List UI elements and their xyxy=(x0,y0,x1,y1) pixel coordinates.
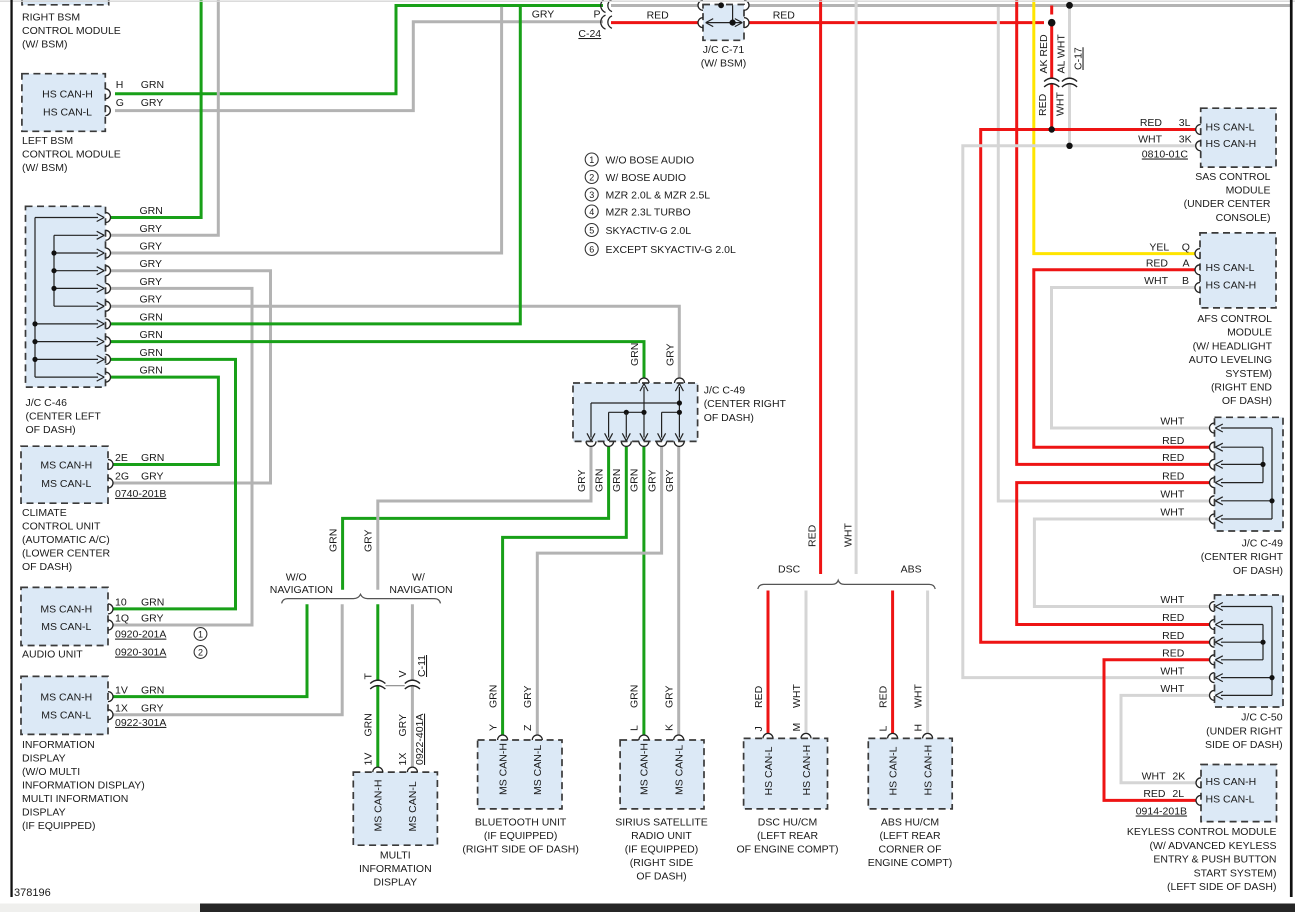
svg-text:J/C C-50: J/C C-50 xyxy=(1241,712,1283,724)
svg-text:RED: RED xyxy=(1140,117,1163,129)
svg-text:GRN: GRN xyxy=(140,365,163,377)
svg-text:378196: 378196 xyxy=(14,887,51,899)
svg-text:(UNDER RIGHT: (UNDER RIGHT xyxy=(1206,725,1283,737)
svg-text:RED: RED xyxy=(1162,435,1185,447)
svg-text:(AUTOMATIC A/C): (AUTOMATIC A/C) xyxy=(22,534,110,546)
svg-text:GRN: GRN xyxy=(140,205,163,217)
svg-text:RED: RED xyxy=(1162,452,1185,464)
svg-text:P: P xyxy=(594,9,601,21)
svg-text:(W/ ADVANCED KEYLESS: (W/ ADVANCED KEYLESS xyxy=(1149,840,1276,852)
svg-text:WHT: WHT xyxy=(1160,416,1184,428)
svg-text:NAVIGATION: NAVIGATION xyxy=(389,584,452,596)
svg-text:MS CAN-H: MS CAN-H xyxy=(40,604,92,616)
svg-text:B: B xyxy=(1182,275,1189,287)
svg-text:M: M xyxy=(791,723,803,732)
svg-text:GRY: GRY xyxy=(141,702,164,714)
svg-text:MS CAN-H: MS CAN-H xyxy=(40,459,92,471)
svg-text:J/C C-49: J/C C-49 xyxy=(704,385,746,397)
svg-text:WHT: WHT xyxy=(1160,665,1184,677)
svg-text:ENTRY & PUSH BUTTON: ENTRY & PUSH BUTTON xyxy=(1153,854,1276,866)
svg-text:MZR 2.0L & MZR 2.5L: MZR 2.0L & MZR 2.5L xyxy=(606,189,711,201)
svg-text:G: G xyxy=(116,97,124,109)
svg-text:(LEFT REAR: (LEFT REAR xyxy=(757,830,818,842)
svg-text:J/C C-49: J/C C-49 xyxy=(1242,538,1284,550)
svg-text:GRY: GRY xyxy=(532,9,555,21)
svg-text:CONTROL MODULE: CONTROL MODULE xyxy=(22,149,121,161)
svg-text:OF ENGINE COMPT): OF ENGINE COMPT) xyxy=(736,843,838,855)
svg-text:BLUETOOTH UNIT: BLUETOOTH UNIT xyxy=(475,816,567,828)
svg-text:(W/ BSM): (W/ BSM) xyxy=(701,58,747,70)
svg-text:RED: RED xyxy=(1162,648,1185,660)
svg-text:OF DASH): OF DASH) xyxy=(1222,395,1272,407)
svg-text:AL WHT: AL WHT xyxy=(1056,34,1068,74)
svg-text:MS CAN-L: MS CAN-L xyxy=(41,621,91,633)
svg-text:GRY: GRY xyxy=(664,343,676,366)
svg-text:H: H xyxy=(912,724,924,732)
svg-text:2: 2 xyxy=(198,647,203,657)
svg-text:MULTI INFORMATION: MULTI INFORMATION xyxy=(22,793,128,805)
svg-text:WHT: WHT xyxy=(791,684,803,708)
svg-text:GRN: GRN xyxy=(487,685,499,708)
svg-text:MS CAN-H: MS CAN-H xyxy=(40,691,92,703)
svg-text:W/O: W/O xyxy=(286,571,307,583)
svg-text:MODULE: MODULE xyxy=(1226,185,1271,197)
svg-text:DSC: DSC xyxy=(778,564,801,576)
svg-text:HS CAN-L: HS CAN-L xyxy=(1206,262,1255,274)
svg-text:MS CAN-H: MS CAN-H xyxy=(497,743,509,795)
svg-text:(CENTER RIGHT: (CENTER RIGHT xyxy=(704,398,787,410)
svg-text:OF DASH): OF DASH) xyxy=(704,412,754,424)
svg-text:CONSOLE): CONSOLE) xyxy=(1216,212,1271,224)
svg-text:C-17: C-17 xyxy=(1073,47,1085,70)
svg-text:INFORMATION: INFORMATION xyxy=(359,863,432,875)
svg-text:OF DASH): OF DASH) xyxy=(26,424,76,436)
svg-text:GRN: GRN xyxy=(141,597,164,609)
svg-text:GRN: GRN xyxy=(141,79,164,91)
svg-text:DISPLAY: DISPLAY xyxy=(374,876,418,888)
svg-text:GRN: GRN xyxy=(140,347,163,359)
svg-text:OF DASH): OF DASH) xyxy=(1233,565,1283,577)
svg-text:RED: RED xyxy=(753,685,765,708)
svg-text:HS CAN-H: HS CAN-H xyxy=(1206,776,1257,788)
svg-text:L: L xyxy=(877,726,889,732)
svg-text:(RIGHT SIDE OF DASH): (RIGHT SIDE OF DASH) xyxy=(462,843,578,855)
svg-text:(RIGHT END: (RIGHT END xyxy=(1211,382,1272,394)
svg-text:CORNER OF: CORNER OF xyxy=(879,843,942,855)
svg-text:GRN: GRN xyxy=(140,329,163,341)
svg-text:START SYSTEM): START SYSTEM) xyxy=(1194,867,1277,879)
svg-text:CONTROL MODULE: CONTROL MODULE xyxy=(22,25,121,37)
svg-text:3K: 3K xyxy=(1179,134,1192,146)
svg-text:C-11: C-11 xyxy=(416,655,428,677)
svg-text:GRY: GRY xyxy=(140,294,163,306)
svg-text:GRN: GRN xyxy=(629,343,641,366)
svg-text:WHT: WHT xyxy=(1142,771,1166,783)
svg-text:MULTI: MULTI xyxy=(380,849,411,861)
svg-text:GRY: GRY xyxy=(141,471,164,483)
svg-text:GRN: GRN xyxy=(629,685,641,708)
svg-text:GRY: GRY xyxy=(141,97,164,109)
svg-text:MS CAN-L: MS CAN-L xyxy=(532,745,544,795)
svg-text:(IF EQUIPPED): (IF EQUIPPED) xyxy=(625,843,699,855)
svg-text:MS CAN-H: MS CAN-H xyxy=(639,743,651,795)
svg-text:RED: RED xyxy=(1146,258,1169,270)
svg-text:INFORMATION DISPLAY): INFORMATION DISPLAY) xyxy=(22,779,145,791)
svg-text:1X: 1X xyxy=(397,753,409,766)
svg-text:AUTO LEVELING: AUTO LEVELING xyxy=(1189,354,1272,366)
svg-text:OF DASH): OF DASH) xyxy=(22,561,72,573)
svg-text:WHT: WHT xyxy=(1138,134,1162,146)
svg-text:RED: RED xyxy=(1143,788,1166,800)
svg-text:2L: 2L xyxy=(1172,788,1184,800)
svg-text:GRY: GRY xyxy=(522,685,534,708)
svg-text:DSC HU/CM: DSC HU/CM xyxy=(758,816,818,828)
svg-text:WHT: WHT xyxy=(1160,507,1184,519)
svg-text:J/C C-46: J/C C-46 xyxy=(26,397,68,409)
svg-text:HS CAN-H: HS CAN-H xyxy=(1206,138,1257,150)
svg-text:HS CAN-L: HS CAN-L xyxy=(1206,122,1255,134)
svg-text:HS CAN-L: HS CAN-L xyxy=(1206,793,1255,805)
svg-text:RED: RED xyxy=(1162,612,1185,624)
svg-text:LEFT BSM: LEFT BSM xyxy=(22,135,73,147)
svg-text:HS CAN-H: HS CAN-H xyxy=(42,89,93,101)
svg-text:ABS: ABS xyxy=(901,564,922,576)
svg-text:GRY: GRY xyxy=(664,469,676,492)
svg-text:(IF EQUIPPED): (IF EQUIPPED) xyxy=(22,820,96,832)
svg-text:OF DASH): OF DASH) xyxy=(636,870,686,882)
svg-text:(W/O MULTI: (W/O MULTI xyxy=(22,766,80,778)
svg-text:3L: 3L xyxy=(1179,117,1191,129)
svg-text:YEL: YEL xyxy=(1149,241,1169,253)
svg-text:GRY: GRY xyxy=(140,258,163,270)
svg-text:(RIGHT SIDE: (RIGHT SIDE xyxy=(630,857,693,869)
svg-text:1: 1 xyxy=(589,155,594,165)
svg-text:RED: RED xyxy=(1162,630,1185,642)
svg-text:Q: Q xyxy=(1182,241,1190,253)
svg-text:GRN: GRN xyxy=(141,684,164,696)
svg-text:C-24: C-24 xyxy=(578,28,601,40)
svg-text:MODULE: MODULE xyxy=(1227,327,1272,339)
svg-text:GRN: GRN xyxy=(363,713,375,736)
svg-text:0810-01C: 0810-01C xyxy=(1142,149,1189,161)
svg-text:RED: RED xyxy=(877,685,889,708)
svg-text:(LOWER CENTER: (LOWER CENTER xyxy=(22,548,111,560)
svg-text:MS CAN-L: MS CAN-L xyxy=(407,781,419,831)
svg-text:GRY: GRY xyxy=(140,276,163,288)
svg-text:GRY: GRY xyxy=(363,529,375,552)
svg-text:(CENTER RIGHT: (CENTER RIGHT xyxy=(1201,551,1284,563)
svg-text:6: 6 xyxy=(589,244,594,254)
svg-text:HS CAN-L: HS CAN-L xyxy=(43,106,92,118)
svg-text:A: A xyxy=(1183,258,1190,270)
svg-text:(W/ BSM): (W/ BSM) xyxy=(22,162,68,174)
svg-text:5: 5 xyxy=(589,225,594,235)
svg-text:SAS CONTROL: SAS CONTROL xyxy=(1195,171,1270,183)
svg-text:WHT: WHT xyxy=(1160,594,1184,606)
svg-text:0920-201A: 0920-201A xyxy=(115,629,166,641)
svg-text:HS CAN-H: HS CAN-H xyxy=(1206,280,1257,292)
svg-text:WHT: WHT xyxy=(842,523,854,547)
svg-text:H: H xyxy=(116,79,124,91)
svg-text:MS CAN-L: MS CAN-L xyxy=(673,745,685,795)
svg-text:AUDIO UNIT: AUDIO UNIT xyxy=(22,649,83,661)
svg-text:GRY: GRY xyxy=(576,469,588,492)
svg-text:HS CAN-L: HS CAN-L xyxy=(763,746,775,795)
svg-text:(W/ HEADLIGHT: (W/ HEADLIGHT xyxy=(1193,340,1273,352)
svg-text:AFS CONTROL: AFS CONTROL xyxy=(1197,313,1272,325)
svg-text:GRN: GRN xyxy=(141,452,164,464)
svg-text:RED: RED xyxy=(1162,470,1185,482)
svg-text:4: 4 xyxy=(589,207,594,217)
svg-text:WHT: WHT xyxy=(912,684,924,708)
svg-text:GRN: GRN xyxy=(140,311,163,323)
svg-text:WHT: WHT xyxy=(1160,489,1184,501)
svg-text:GRN: GRN xyxy=(593,469,605,492)
svg-text:NAVIGATION: NAVIGATION xyxy=(270,584,333,596)
svg-text:GRY: GRY xyxy=(646,469,658,492)
svg-text:INFORMATION: INFORMATION xyxy=(22,739,95,751)
svg-text:GRN: GRN xyxy=(611,469,623,492)
svg-text:0914-201B: 0914-201B xyxy=(1136,806,1187,818)
svg-text:1X: 1X xyxy=(115,702,128,714)
svg-text:(IF EQUIPPED): (IF EQUIPPED) xyxy=(484,830,558,842)
svg-text:2: 2 xyxy=(589,172,594,182)
svg-text:3: 3 xyxy=(589,190,594,200)
svg-text:2K: 2K xyxy=(1172,771,1185,783)
svg-text:RADIO UNIT: RADIO UNIT xyxy=(631,830,692,842)
svg-text:HS CAN-H: HS CAN-H xyxy=(922,745,934,796)
svg-text:RIGHT BSM: RIGHT BSM xyxy=(22,12,80,24)
svg-text:ENGINE COMPT): ENGINE COMPT) xyxy=(868,857,953,869)
svg-text:0922-301A: 0922-301A xyxy=(115,717,166,729)
svg-text:RED: RED xyxy=(1037,93,1049,116)
svg-text:CONTROL UNIT: CONTROL UNIT xyxy=(22,521,101,533)
svg-text:MZR 2.3L TURBO: MZR 2.3L TURBO xyxy=(606,206,691,218)
svg-text:DISPLAY: DISPLAY xyxy=(22,806,66,818)
svg-text:J/C C-71: J/C C-71 xyxy=(703,44,745,56)
svg-text:GRY: GRY xyxy=(140,241,163,253)
svg-text:MS CAN-L: MS CAN-L xyxy=(41,478,91,490)
svg-text:J: J xyxy=(753,726,765,731)
svg-text:HS CAN-H: HS CAN-H xyxy=(801,745,813,796)
svg-text:T: T xyxy=(363,673,375,680)
svg-text:(CENTER LEFT: (CENTER LEFT xyxy=(26,410,102,422)
svg-text:GRY: GRY xyxy=(140,223,163,235)
svg-text:EXCEPT SKYACTIV-G 2.0L: EXCEPT SKYACTIV-G 2.0L xyxy=(606,244,736,256)
svg-text:CLIMATE: CLIMATE xyxy=(22,507,67,519)
svg-text:W/ BOSE AUDIO: W/ BOSE AUDIO xyxy=(606,172,687,184)
svg-text:1V: 1V xyxy=(115,684,128,696)
svg-text:L: L xyxy=(629,725,641,731)
svg-text:WHT: WHT xyxy=(1055,92,1067,116)
svg-text:(W/ BSM): (W/ BSM) xyxy=(22,39,68,51)
svg-text:GRY: GRY xyxy=(141,613,164,625)
svg-text:RED: RED xyxy=(773,9,796,21)
svg-text:V: V xyxy=(397,670,409,677)
svg-text:W/: W/ xyxy=(412,571,425,583)
svg-text:1V: 1V xyxy=(363,753,375,766)
svg-text:SIRIUS SATELLITE: SIRIUS SATELLITE xyxy=(615,816,708,828)
svg-text:HS CAN-L: HS CAN-L xyxy=(887,746,899,795)
svg-text:1Q: 1Q xyxy=(115,613,129,625)
svg-text:GRY: GRY xyxy=(664,685,676,708)
svg-text:0920-301A: 0920-301A xyxy=(115,647,166,659)
svg-text:(UNDER CENTER: (UNDER CENTER xyxy=(1184,198,1271,210)
svg-text:Z: Z xyxy=(522,724,534,731)
svg-text:0740-201B: 0740-201B xyxy=(115,488,166,500)
svg-text:Y: Y xyxy=(487,724,499,731)
svg-text:2E: 2E xyxy=(115,452,128,464)
svg-text:(LEFT SIDE OF DASH): (LEFT SIDE OF DASH) xyxy=(1167,881,1277,893)
svg-text:RED: RED xyxy=(806,524,818,547)
svg-text:DISPLAY: DISPLAY xyxy=(22,752,66,764)
svg-text:MS CAN-L: MS CAN-L xyxy=(41,710,91,722)
svg-text:(LEFT REAR: (LEFT REAR xyxy=(879,830,940,842)
svg-text:W/O BOSE AUDIO: W/O BOSE AUDIO xyxy=(606,154,695,166)
svg-text:GRN: GRN xyxy=(629,469,641,492)
svg-text:AK RED: AK RED xyxy=(1038,34,1050,74)
svg-text:K: K xyxy=(664,724,676,731)
svg-text:0922-401A: 0922-401A xyxy=(414,714,426,765)
svg-text:2G: 2G xyxy=(115,471,129,483)
svg-text:SYSTEM): SYSTEM) xyxy=(1225,368,1272,380)
svg-text:SKYACTIV-G 2.0L: SKYACTIV-G 2.0L xyxy=(606,225,692,237)
svg-text:GRN: GRN xyxy=(327,529,339,552)
svg-text:SIDE OF DASH): SIDE OF DASH) xyxy=(1205,739,1283,751)
svg-text:ABS HU/CM: ABS HU/CM xyxy=(881,816,939,828)
svg-text:WHT: WHT xyxy=(1144,275,1168,287)
svg-text:1: 1 xyxy=(198,629,203,639)
svg-text:10: 10 xyxy=(115,597,127,609)
svg-text:WHT: WHT xyxy=(1160,683,1184,695)
svg-text:RED: RED xyxy=(647,9,670,21)
svg-text:KEYLESS CONTROL MODULE: KEYLESS CONTROL MODULE xyxy=(1127,826,1277,838)
svg-text:MS CAN-H: MS CAN-H xyxy=(373,780,385,832)
svg-text:GRY: GRY xyxy=(397,714,409,737)
